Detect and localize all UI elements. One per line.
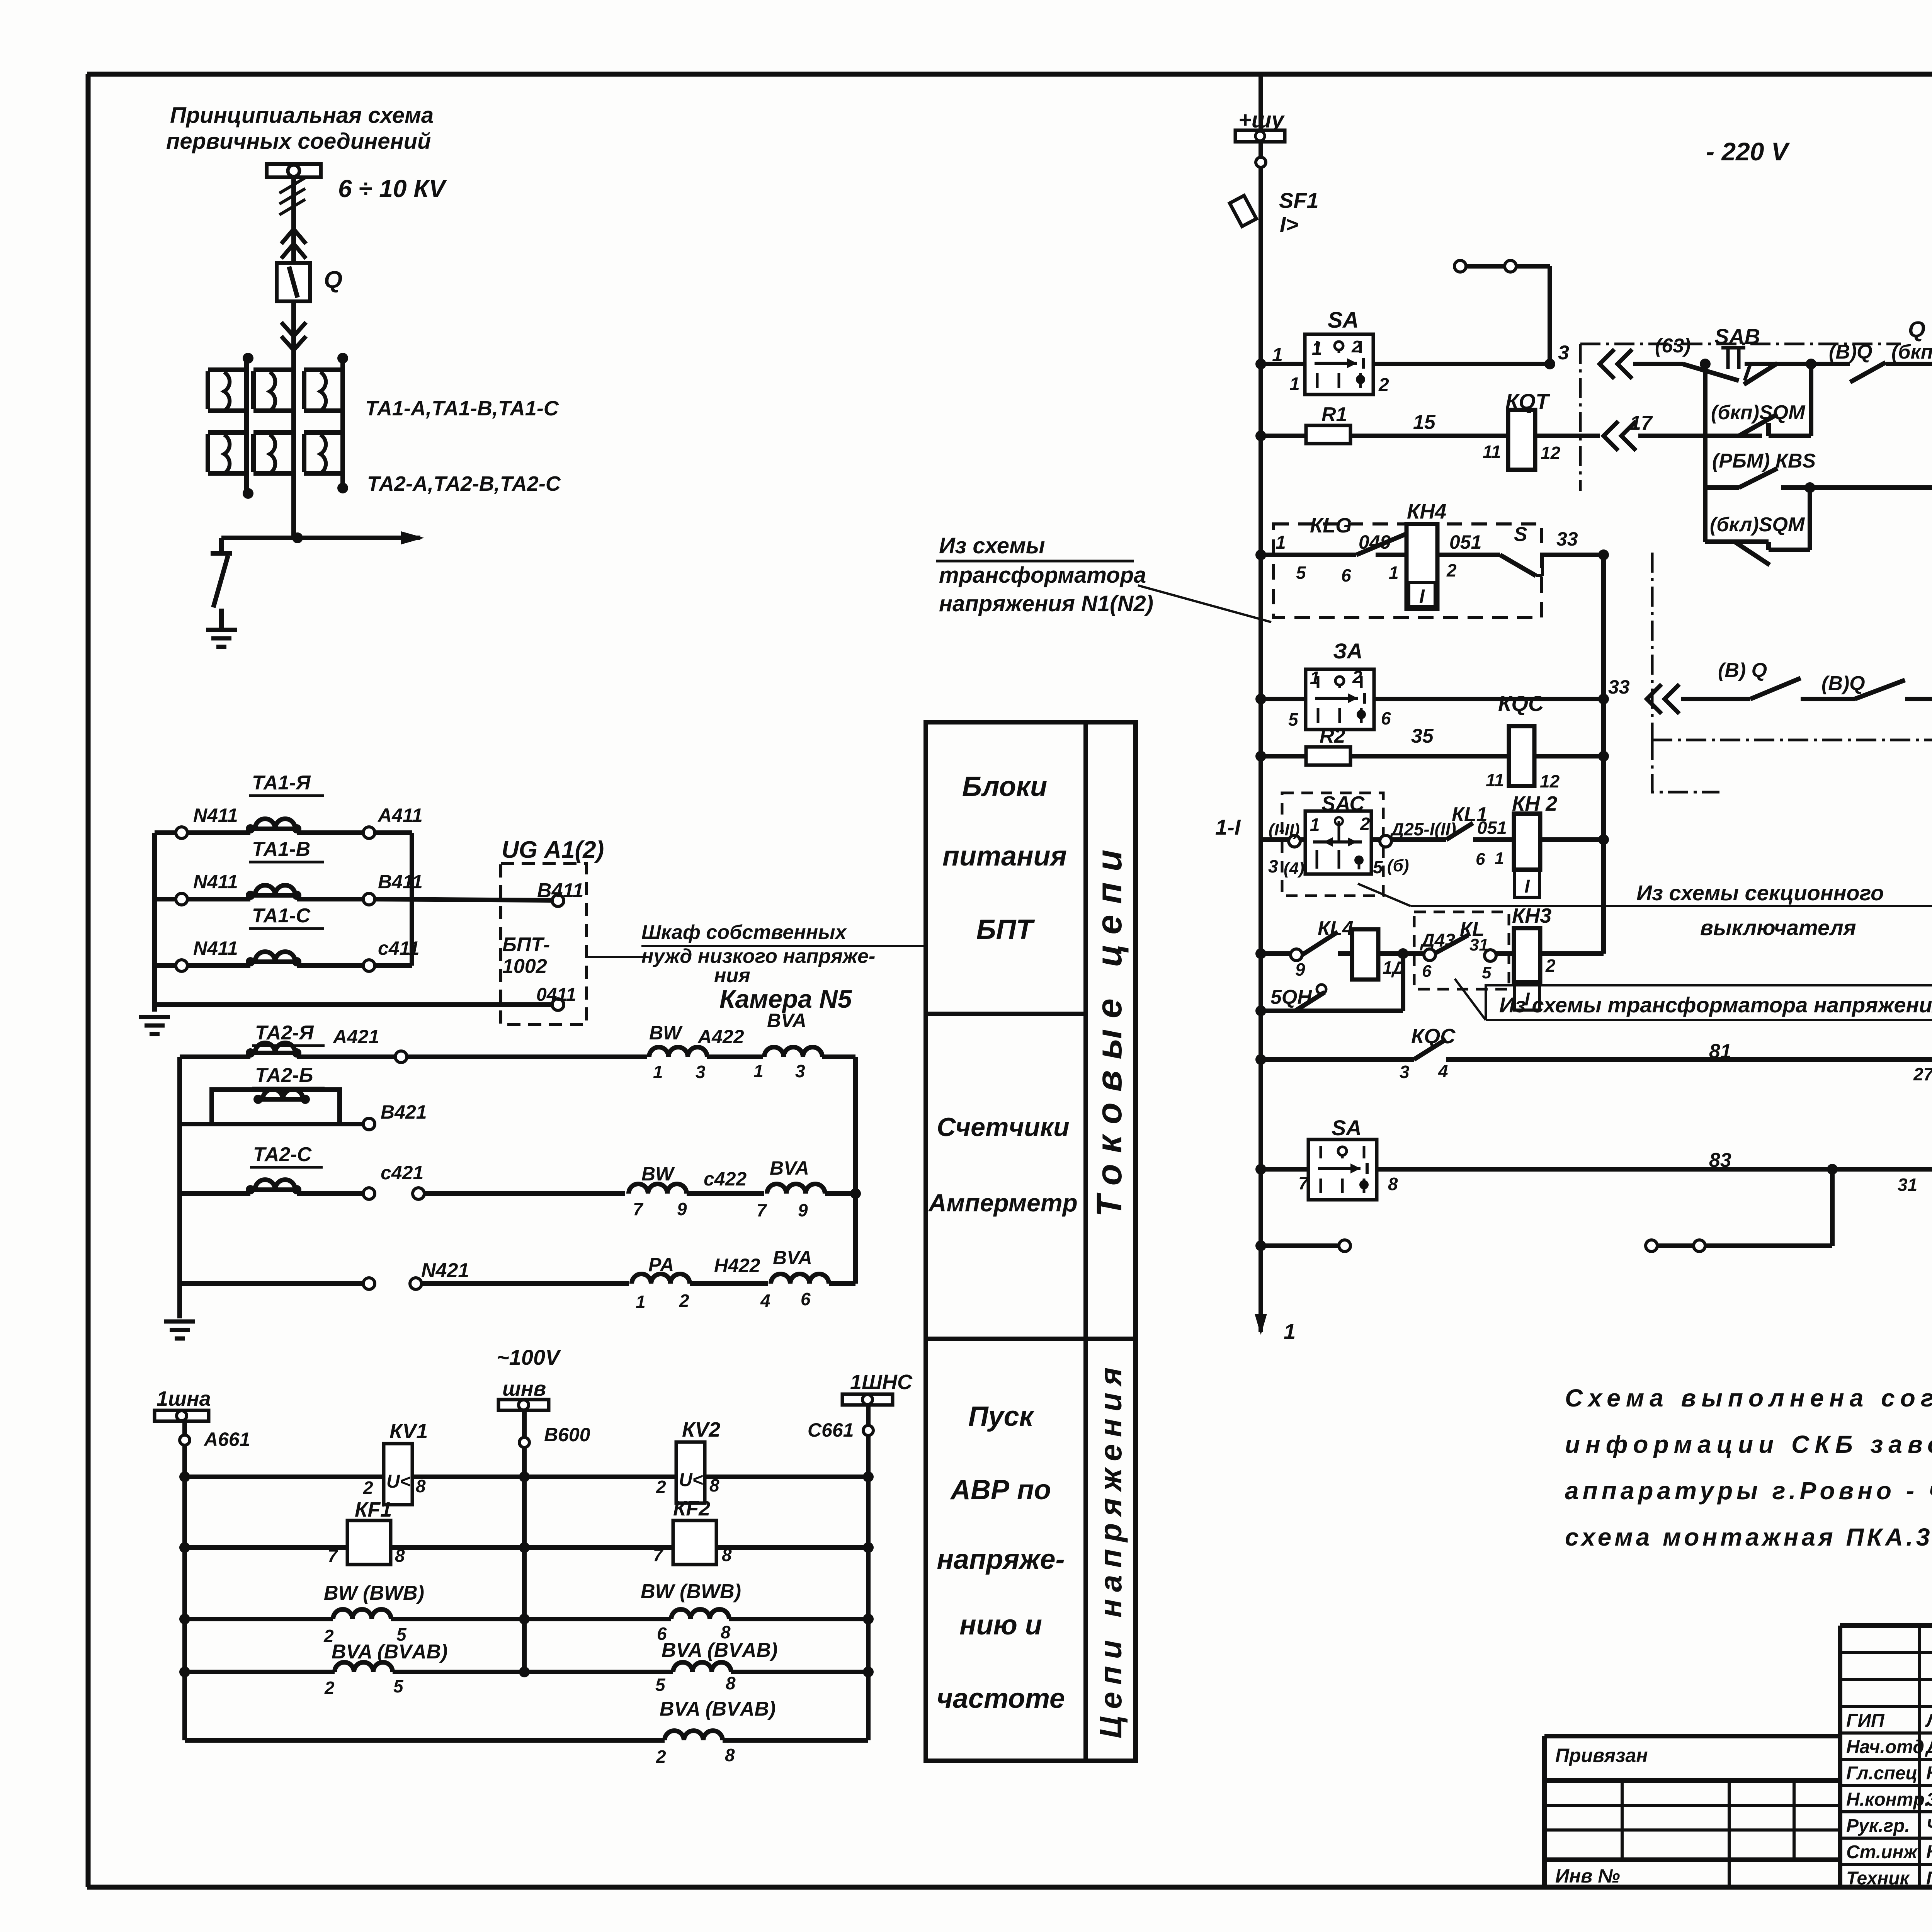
svg-text:Схема выполнена согласно: Схема выполнена согласно технической (1565, 1384, 1932, 1412)
svg-text:6 ÷ 10 КV: 6 ÷ 10 КV (338, 175, 447, 202)
svg-text:12: 12 (1540, 771, 1560, 791)
svg-text:КН 2: КН 2 (1512, 792, 1557, 815)
svg-text:81: 81 (1709, 1040, 1731, 1063)
svg-text:С661: С661 (808, 1419, 854, 1441)
svg-text:1: 1 (1312, 338, 1322, 359)
svg-text:R1: R1 (1321, 403, 1347, 426)
svg-text:31: 31 (1898, 1175, 1917, 1195)
svg-text:3: 3 (1268, 856, 1278, 876)
svg-text:(I-II): (I-II) (1269, 820, 1300, 839)
svg-text:8: 8 (1388, 1174, 1398, 1194)
svg-text:83: 83 (1709, 1149, 1731, 1172)
svg-text:BVA: BVA (770, 1157, 809, 1179)
svg-text:КН4: КН4 (1407, 500, 1446, 523)
svg-text:7: 7 (653, 1545, 664, 1565)
svg-text:напряже-: напряже- (937, 1544, 1065, 1575)
svg-text:Из схемы секционного: Из схемы секционного (1636, 881, 1884, 905)
svg-text:BVA: BVA (773, 1247, 812, 1269)
svg-text:ТА1-С: ТА1-С (252, 905, 311, 927)
svg-text:Чапны: Чапны (1926, 1816, 1932, 1836)
svg-text:нию и: нию и (959, 1610, 1042, 1641)
svg-text:5: 5 (1296, 563, 1306, 583)
svg-text:SАС: SАС (1321, 792, 1365, 815)
svg-text:2: 2 (363, 1478, 373, 1498)
svg-text:- 220 V: - 220 V (1706, 137, 1790, 166)
svg-text:SА: SА (1328, 308, 1359, 333)
svg-text:I>: I> (1280, 212, 1298, 236)
svg-text:Д25-I(II): Д25-I(II) (1389, 819, 1456, 839)
svg-text:КQС: КQС (1498, 691, 1544, 716)
svg-text:Н422: Н422 (714, 1255, 760, 1276)
svg-text:Амперметр: Амперметр (928, 1189, 1077, 1217)
svg-text:5: 5 (1482, 963, 1492, 982)
svg-text:9: 9 (677, 1199, 687, 1219)
svg-text:UG А1(2): UG А1(2) (502, 837, 604, 863)
svg-text:2: 2 (1360, 814, 1370, 834)
svg-text:N411: N411 (193, 804, 238, 826)
svg-text:КQТ: КQТ (1505, 389, 1551, 413)
svg-text:ТА1-Я: ТА1-Я (252, 772, 311, 794)
svg-text:3: 3 (696, 1062, 706, 1082)
svg-text:11: 11 (1486, 770, 1504, 790)
svg-text:ТА2-А,ТА2-В,ТА2-С: ТА2-А,ТА2-В,ТА2-С (367, 472, 561, 495)
svg-text:А422: А422 (697, 1026, 744, 1048)
svg-text:27: 27 (1913, 1064, 1932, 1084)
svg-text:Нач.отд: Нач.отд (1846, 1737, 1924, 1757)
svg-text:35: 35 (1411, 725, 1434, 747)
svg-text:АВР по: АВР по (950, 1475, 1051, 1505)
svg-text:5: 5 (1373, 857, 1383, 877)
svg-text:КН3: КН3 (1512, 904, 1551, 927)
svg-text:Пуск: Пуск (968, 1401, 1035, 1432)
svg-text:6: 6 (1422, 962, 1432, 981)
svg-text:8: 8 (726, 1673, 736, 1693)
svg-text:ния: ния (714, 964, 750, 987)
svg-text:BW: BW (649, 1022, 683, 1044)
svg-text:нужд низкого напряже-: нужд низкого напряже- (641, 945, 875, 968)
svg-text:А411: А411 (377, 804, 423, 826)
svg-text:Кравцова: Кравцова (1926, 1842, 1932, 1862)
svg-text:БПТ-: БПТ- (502, 934, 550, 956)
svg-text:с421: с421 (381, 1162, 423, 1184)
svg-text:1: 1 (1284, 1319, 1296, 1344)
svg-text:33: 33 (1608, 676, 1630, 698)
svg-text:6: 6 (1341, 565, 1351, 585)
svg-text:(бкл)SQМ: (бкл)SQМ (1710, 514, 1805, 536)
svg-text:А421: А421 (332, 1026, 379, 1048)
svg-text:7: 7 (1298, 1173, 1309, 1193)
svg-text:BVA (BVАВ): BVA (BVАВ) (332, 1641, 447, 1663)
svg-text:КL4: КL4 (1318, 917, 1354, 940)
svg-text:I: I (1419, 585, 1425, 607)
svg-text:1: 1 (1276, 532, 1286, 553)
svg-text:аппаратуры г.Ровно - чертеж: аппаратуры г.Ровно - чертеж Р2286-4 исп.… (1565, 1477, 1932, 1505)
svg-text:2: 2 (656, 1747, 666, 1767)
svg-text:частоте: частоте (937, 1683, 1065, 1714)
svg-text:5QН: 5QН (1270, 986, 1312, 1009)
svg-text:5: 5 (393, 1676, 404, 1696)
svg-text:BW (BWВ): BW (BWВ) (324, 1582, 424, 1604)
svg-text:7: 7 (328, 1546, 338, 1566)
svg-text:А661: А661 (203, 1429, 250, 1450)
svg-text:2: 2 (1545, 956, 1556, 976)
svg-text:~100V: ~100V (497, 1345, 561, 1369)
svg-text:N411: N411 (193, 871, 238, 893)
svg-text:3: 3 (1558, 342, 1569, 364)
svg-text:Д43: Д43 (1420, 930, 1455, 951)
svg-text:трансформатора: трансформатора (939, 563, 1146, 588)
svg-text:1: 1 (1310, 668, 1320, 688)
svg-text:КLG: КLG (1310, 514, 1352, 537)
svg-text:Золотарева: Золотарева (1926, 1789, 1932, 1810)
svg-text:Гл.спец.: Гл.спец. (1846, 1763, 1923, 1784)
svg-text:Камера N5: Камера N5 (719, 985, 852, 1013)
svg-text:33: 33 (1556, 528, 1578, 550)
svg-text:S: S (1514, 523, 1527, 546)
svg-text:9: 9 (1295, 959, 1305, 980)
svg-text:информации СКБ завода высо: информации СКБ завода высоковольтной (1565, 1430, 1932, 1458)
svg-text:9: 9 (798, 1200, 808, 1220)
svg-text:Гарстка: Гарстка (1926, 1868, 1932, 1889)
svg-text:1: 1 (753, 1061, 764, 1081)
svg-text:Техник: Техник (1846, 1868, 1910, 1889)
svg-text:051: 051 (1449, 531, 1481, 553)
svg-text:Нашельский: Нашельский (1926, 1763, 1932, 1784)
svg-text:U<: U< (386, 1471, 411, 1492)
svg-text:(РБМ) КВS: (РБМ) КВS (1712, 450, 1816, 472)
svg-text:N411: N411 (193, 937, 238, 959)
svg-text:2: 2 (1351, 337, 1361, 356)
svg-text:1шна: 1шна (156, 1387, 211, 1410)
svg-text:6: 6 (1476, 850, 1485, 869)
svg-text:1: 1 (1389, 563, 1399, 583)
svg-text:первичных соединений: первичных соединений (166, 129, 431, 154)
svg-text:8: 8 (725, 1745, 735, 1765)
svg-text:КF2: КF2 (673, 1497, 710, 1520)
svg-text:ГИП: ГИП (1846, 1711, 1885, 1731)
svg-text:17: 17 (1630, 412, 1653, 434)
svg-text:Рук.гр.: Рук.гр. (1846, 1816, 1910, 1836)
svg-text:Из схемы: Из схемы (939, 533, 1045, 558)
svg-text:2: 2 (679, 1291, 689, 1311)
svg-text:Q: Q (324, 267, 342, 293)
svg-text:3: 3 (795, 1061, 805, 1081)
svg-text:Блоки: Блоки (962, 771, 1047, 802)
svg-text:КQС: КQС (1411, 1025, 1456, 1048)
svg-text:BVA: BVA (767, 1010, 806, 1031)
svg-text:Леонов: Леонов (1925, 1711, 1932, 1731)
svg-text:(В)Q: (В)Q (1821, 672, 1865, 695)
svg-text:Счетчики: Счетчики (937, 1112, 1069, 1142)
svg-text:5: 5 (1288, 709, 1299, 730)
svg-text:5: 5 (655, 1675, 666, 1695)
svg-text:Цепи напряжения: Цепи напряжения (1094, 1361, 1128, 1738)
svg-text:выключателя: выключателя (1700, 915, 1856, 940)
svg-text:с422: с422 (704, 1168, 747, 1190)
svg-text:ТА2-Б: ТА2-Б (255, 1064, 313, 1087)
svg-text:Шкаф собственных: Шкаф собственных (641, 921, 847, 944)
svg-text:1002: 1002 (502, 955, 547, 978)
svg-text:Привязан: Привязан (1555, 1745, 1648, 1766)
svg-text:4: 4 (1438, 1061, 1448, 1081)
svg-text:049: 049 (1359, 531, 1391, 553)
svg-text:ЗА: ЗА (1333, 639, 1362, 663)
svg-text:7: 7 (633, 1199, 644, 1219)
svg-text:2: 2 (1352, 667, 1362, 687)
svg-text:12: 12 (1541, 443, 1561, 463)
svg-text:R2: R2 (1320, 725, 1345, 747)
svg-text:Ст.инж.: Ст.инж. (1846, 1842, 1922, 1862)
svg-text:питания: питания (942, 841, 1067, 872)
svg-text:КV1: КV1 (389, 1420, 428, 1443)
svg-text:2: 2 (324, 1678, 335, 1698)
svg-text:напряжения N1(N2): напряжения N1(N2) (939, 591, 1153, 616)
svg-text:Из схемы трансформатора напряж: Из схемы трансформатора напряжения N1(N2… (1499, 993, 1932, 1017)
svg-text:КF1: КF1 (355, 1498, 392, 1521)
svg-text:6: 6 (1381, 708, 1391, 728)
svg-text:BVA (BVАВ): BVA (BVАВ) (662, 1639, 777, 1662)
svg-text:Принципиальная схема: Принципиальная схема (170, 103, 434, 128)
svg-text:Токовые цепи: Токовые цепи (1090, 839, 1129, 1217)
svg-text:Н.контр.: Н.контр. (1846, 1789, 1930, 1810)
svg-text:1ШНС: 1ШНС (850, 1371, 913, 1394)
svg-text:(б): (б) (1387, 856, 1409, 875)
svg-text:3: 3 (1400, 1062, 1410, 1082)
svg-text:(63): (63) (1655, 335, 1690, 357)
svg-text:15: 15 (1413, 411, 1436, 434)
svg-text:1-I: 1-I (1215, 815, 1241, 839)
svg-text:SF1: SF1 (1279, 188, 1319, 213)
svg-text:I: I (1524, 876, 1530, 897)
svg-text:В411: В411 (378, 871, 423, 893)
svg-text:BW: BW (641, 1163, 675, 1185)
svg-text:4: 4 (760, 1291, 770, 1311)
svg-text:(4): (4) (1284, 859, 1304, 878)
svg-text:шнв: шнв (502, 1377, 546, 1400)
svg-text:BVA (BVАВ): BVA (BVАВ) (660, 1698, 776, 1720)
svg-text:1: 1 (1289, 374, 1300, 395)
svg-text:В600: В600 (544, 1424, 590, 1446)
svg-text:1: 1 (636, 1292, 646, 1312)
svg-text:6: 6 (801, 1289, 811, 1309)
svg-text:ТА1-А,ТА1-В,ТА1-С: ТА1-А,ТА1-В,ТА1-С (365, 397, 559, 420)
svg-text:В411: В411 (537, 879, 583, 902)
svg-text:SА: SА (1332, 1116, 1362, 1140)
svg-text:1: 1 (1310, 815, 1320, 835)
svg-text:1: 1 (653, 1062, 663, 1082)
svg-text:Q: Q (1908, 317, 1925, 342)
svg-text:(В) Q: (В) Q (1718, 659, 1767, 682)
svg-text:U<: U< (679, 1470, 703, 1490)
svg-text:051: 051 (1477, 818, 1507, 838)
svg-text:В421: В421 (381, 1101, 427, 1123)
svg-text:BW (BWВ): BW (BWВ) (641, 1580, 741, 1603)
svg-text:(бкп)SQМ: (бкп)SQМ (1711, 401, 1806, 424)
svg-text:2: 2 (1378, 375, 1389, 395)
svg-text:БПТ: БПТ (976, 914, 1036, 945)
svg-text:1: 1 (1495, 849, 1504, 868)
svg-text:2: 2 (656, 1477, 666, 1497)
svg-text:КV2: КV2 (682, 1418, 720, 1441)
svg-text:Инв №: Инв № (1555, 1865, 1620, 1887)
svg-text:2: 2 (1446, 560, 1457, 580)
svg-text:11: 11 (1483, 442, 1501, 462)
svg-text:0411: 0411 (536, 985, 576, 1005)
svg-text:схема монтажная ПКА.364.379: схема монтажная ПКА.364.379.04 (1565, 1523, 1932, 1551)
svg-text:7: 7 (757, 1200, 767, 1220)
svg-text:N421: N421 (421, 1259, 469, 1282)
svg-text:ТА2-С: ТА2-С (253, 1143, 312, 1166)
svg-text:ТА1-В: ТА1-В (252, 838, 310, 861)
